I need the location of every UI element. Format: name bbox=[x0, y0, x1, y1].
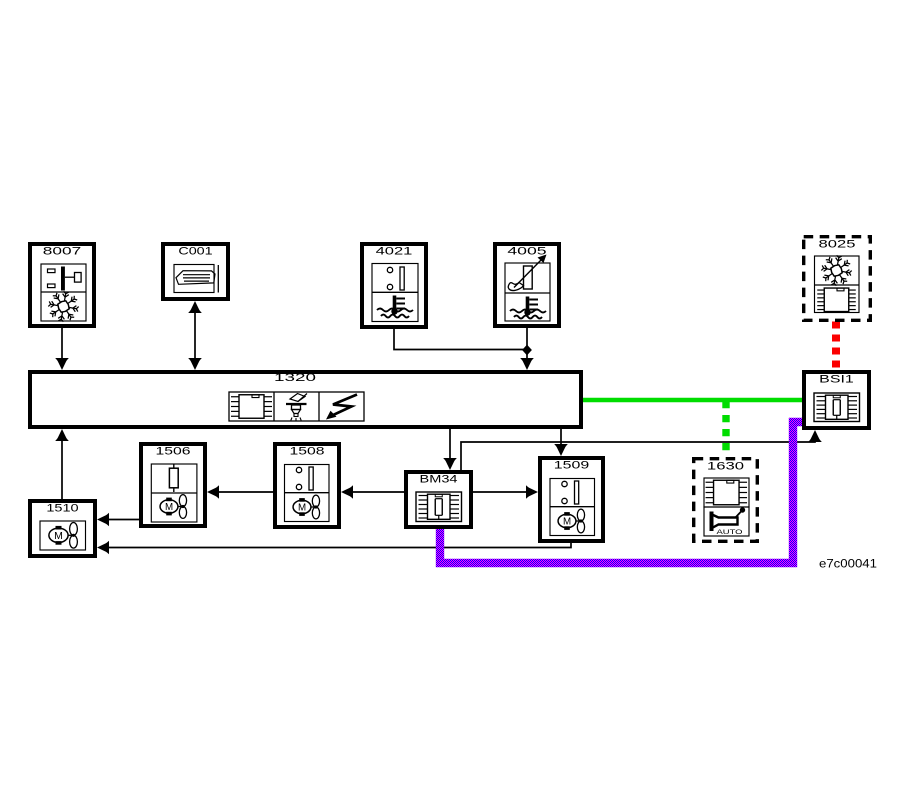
svg-text:1630: 1630 bbox=[707, 461, 744, 473]
horn AUTO icon in 1630 bbox=[712, 507, 746, 536]
component BSI1 body control unit bbox=[804, 372, 869, 428]
motor-fan icon in 1510 bbox=[49, 528, 68, 542]
svg-text:BSI1: BSI1 bbox=[819, 374, 854, 386]
snowflake icon in 8025 bbox=[821, 255, 851, 285]
svg-text:M: M bbox=[165, 502, 173, 513]
svg-text:C001: C001 bbox=[178, 246, 212, 258]
svg-text:1509: 1509 bbox=[554, 460, 589, 472]
component 4005 temp sensor w/ rheostat bbox=[495, 244, 559, 326]
wire green CAN line 1320 to BSI1 bbox=[583, 398, 802, 403]
svg-text:M: M bbox=[298, 503, 306, 514]
svg-text:AUTO: AUTO bbox=[717, 529, 743, 536]
svg-text:M: M bbox=[563, 517, 571, 528]
relay-unit icon in BSI1 bbox=[814, 393, 860, 422]
wire BM34 to BSI1 (via top run) bbox=[461, 437, 815, 470]
component 1506 fan resistor unit bbox=[141, 444, 205, 526]
wire 4005 to 1320 bbox=[526, 328, 528, 362]
component 4021 coolant temp switch/sensor bbox=[362, 244, 426, 327]
wire green dashed drop to 1630 bbox=[722, 401, 729, 456]
wire 8007 to 1320 bbox=[61, 328, 63, 362]
svg-text:e7c00041: e7c00041 bbox=[819, 559, 877, 571]
svg-text:1320: 1320 bbox=[274, 372, 316, 384]
motor-fan icon in 1509 bbox=[558, 514, 576, 527]
relay-unit icon in BM34 bbox=[416, 492, 462, 522]
component 1509 fan assembly bbox=[540, 458, 603, 541]
component 8025 evaporator sensor (dashed) bbox=[804, 237, 871, 321]
component BM34 engine fusebox bbox=[406, 472, 471, 527]
wire 1320 to 1509 bbox=[560, 429, 562, 449]
junction of 4021/4005 wires bbox=[522, 345, 532, 356]
component 1510 cooling fan bbox=[30, 501, 95, 556]
chip icon in 1320 bbox=[239, 395, 264, 419]
wire 1320 to BM34 bbox=[449, 429, 451, 462]
thermometer icon in 4021 bbox=[393, 296, 397, 312]
resistor icon in 1506 bbox=[169, 468, 178, 488]
svg-text:BM34: BM34 bbox=[420, 474, 458, 486]
component 1320 engine ECU bbox=[30, 372, 581, 427]
svg-text:4005: 4005 bbox=[507, 246, 546, 258]
svg-text:4021: 4021 bbox=[376, 246, 413, 258]
wire BM34 to 1508 bbox=[349, 491, 404, 493]
svg-text:M: M bbox=[54, 530, 63, 542]
wire 1510 to 1320 bbox=[61, 437, 63, 499]
wire 1506 to 1510 bbox=[105, 519, 139, 521]
component 1508 fan relay/motor bbox=[275, 444, 339, 527]
svg-text:8007: 8007 bbox=[43, 246, 81, 258]
wire 4021 to junction bbox=[394, 329, 526, 350]
motor-fan icon in 1506 bbox=[160, 500, 178, 513]
chip icon in 8025 bbox=[824, 288, 849, 312]
wire BM34 to 1509 bbox=[473, 491, 530, 493]
lightning icon in 1320 bbox=[326, 395, 357, 420]
svg-text:1506: 1506 bbox=[156, 446, 191, 458]
component 1630 auto gearbox ECU (dashed) bbox=[694, 459, 758, 542]
svg-text:1508: 1508 bbox=[290, 446, 325, 458]
component C001 diagnostic connector bbox=[163, 244, 228, 299]
svg-text:1510: 1510 bbox=[46, 503, 78, 515]
injector icon in 1320 bbox=[286, 394, 307, 422]
snowflake icon in 8007 bbox=[48, 291, 78, 321]
chip icon in 1630 bbox=[714, 480, 740, 505]
wire purple BM34 to BSI1 bbox=[440, 422, 802, 563]
motor-fan icon in 1508 bbox=[293, 500, 311, 513]
wire 1508 to 1506 bbox=[215, 491, 273, 493]
thermometer icon in 4005 bbox=[526, 297, 530, 313]
wire 1509 to 1510 bbox=[105, 543, 571, 548]
wire C001 to 1320 (bidirectional) bbox=[194, 308, 196, 363]
wire red dashed 8025 to BSI1 bbox=[832, 322, 840, 371]
svg-text:8025: 8025 bbox=[819, 239, 856, 251]
component 8007 pressure switch / compressor bbox=[30, 244, 94, 326]
